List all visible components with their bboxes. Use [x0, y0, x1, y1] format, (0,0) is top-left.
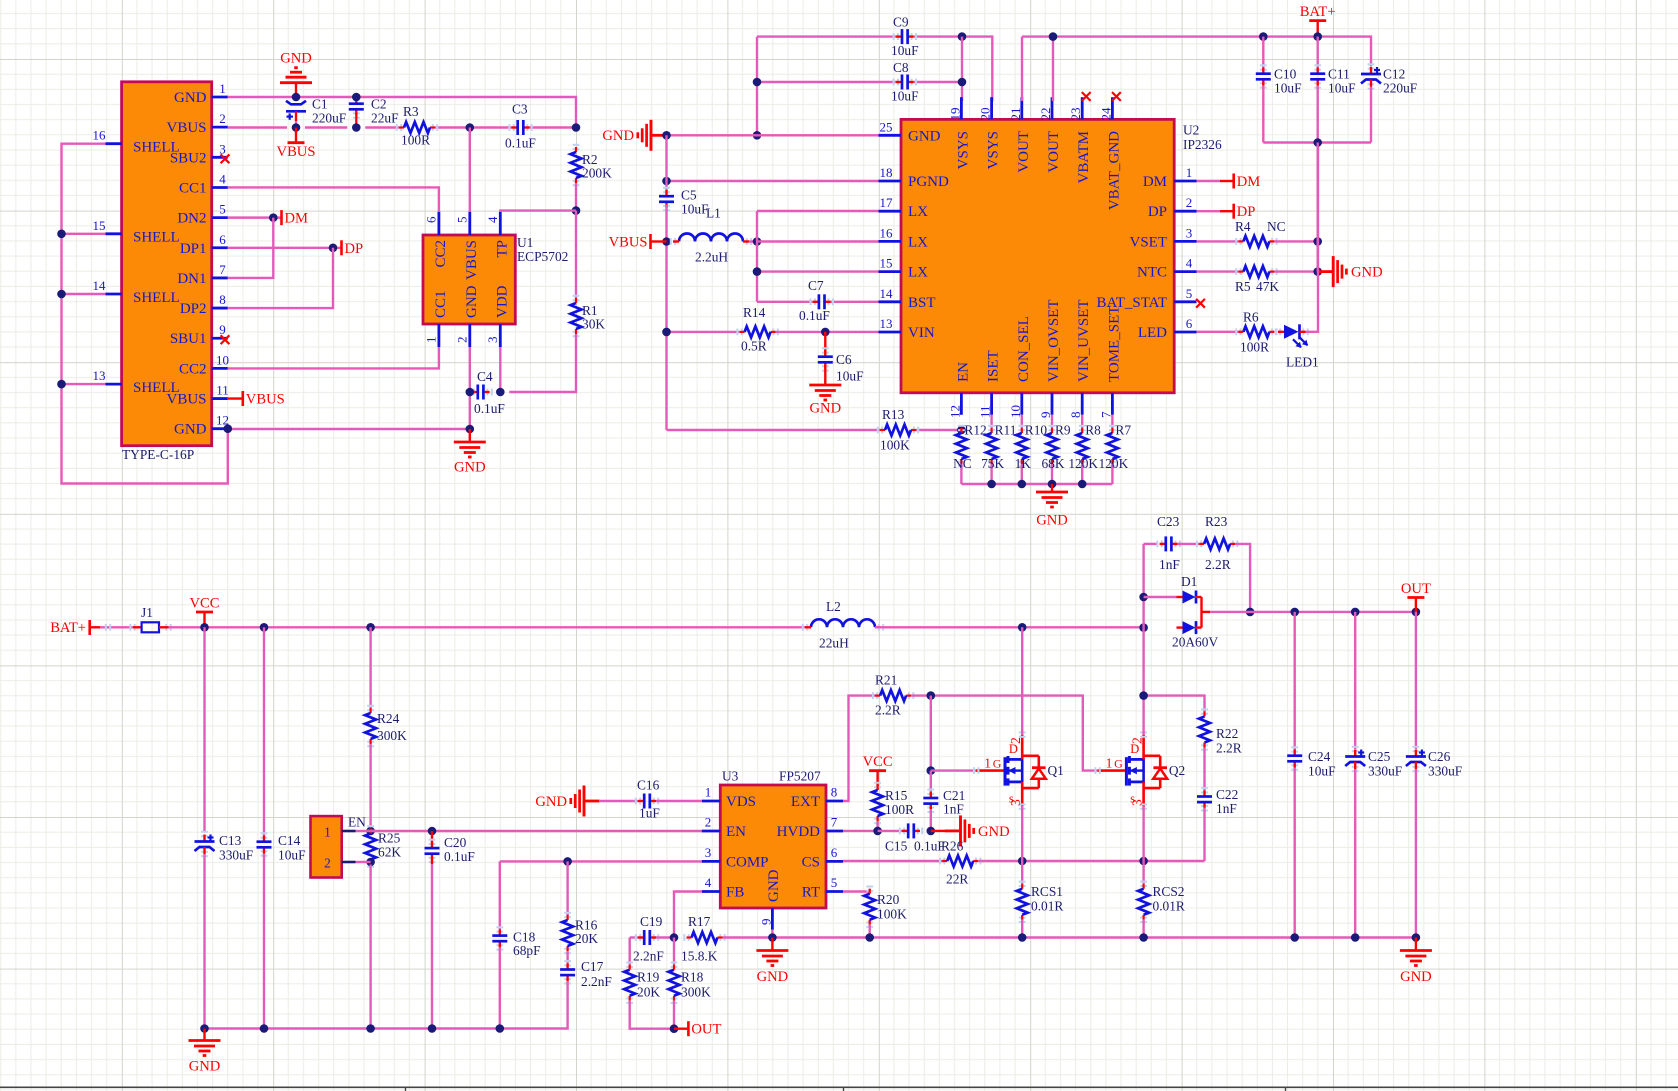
svg-text:5: 5	[454, 217, 469, 224]
svg-text:G: G	[993, 756, 1002, 770]
transistor Q2 MOSFET	[1098, 769, 1127, 772]
IC U3 FP5207 body	[720, 785, 826, 908]
svg-text:GND: GND	[174, 90, 207, 106]
svg-text:L2: L2	[826, 599, 841, 614]
no-connect X on pin 9 SBU1	[221, 335, 230, 344]
svg-text:14: 14	[93, 278, 107, 293]
svg-text:C1: C1	[312, 97, 328, 112]
junction FB node	[670, 933, 679, 942]
svg-text:200K: 200K	[582, 166, 612, 181]
svg-text:10uF: 10uF	[1308, 764, 1336, 779]
capacitor C19 2.2nF	[636, 934, 640, 941]
svg-text:10uF: 10uF	[891, 89, 919, 104]
LED LED1	[1284, 325, 1299, 339]
wire LX pin17	[757, 210, 879, 212]
svg-text:VOUT: VOUT	[1016, 131, 1032, 173]
junction C24 gnd	[1290, 933, 1299, 942]
svg-text:1: 1	[1186, 165, 1193, 180]
wire R4 to battery node	[1274, 240, 1317, 242]
wire C17 to rail	[205, 981, 568, 1028]
junction rail	[987, 480, 996, 489]
connector J-TYPE-C-16P body	[122, 82, 212, 446]
svg-text:U2: U2	[1183, 123, 1199, 138]
junction Q1 source CS	[1018, 857, 1027, 866]
svg-text:22uF: 22uF	[371, 111, 399, 126]
capacitor C18 68pF	[496, 927, 503, 931]
svg-text:2.2nF: 2.2nF	[581, 974, 612, 989]
wire C23 top line	[1144, 543, 1158, 545]
svg-text:EN: EN	[726, 824, 746, 840]
wire Q2 source to CS	[1142, 806, 1144, 861]
svg-text:VIN: VIN	[908, 325, 935, 341]
svg-text:VBUS: VBUS	[246, 392, 285, 408]
wire C21 branch	[930, 771, 932, 793]
svg-text:330uF: 330uF	[1428, 764, 1462, 779]
wire R16-C17	[566, 951, 568, 963]
wire R19 to OUT rail	[630, 1001, 674, 1029]
svg-text:DM: DM	[1237, 174, 1261, 190]
svg-text:2.2uH: 2.2uH	[695, 250, 728, 265]
junction C3 left node	[466, 123, 475, 132]
svg-text:2: 2	[1186, 195, 1193, 210]
wire C8/C9 left vertical	[756, 37, 758, 136]
wire U3 pin9 to GND rail	[771, 930, 773, 938]
junction VIN left	[662, 328, 671, 337]
wire TP node to R1	[575, 211, 577, 298]
svg-text:Q1: Q1	[1048, 763, 1064, 778]
IC U1 ECP5702 body	[423, 235, 515, 324]
junction Q1 drain	[1018, 623, 1027, 632]
svg-text:9: 9	[1038, 412, 1053, 419]
wire DM flag	[1197, 180, 1221, 182]
svg-text:C6: C6	[836, 352, 852, 367]
svg-text:0.1uF: 0.1uF	[444, 849, 475, 864]
svg-text:68K: 68K	[1041, 456, 1064, 471]
junction R4 node	[1313, 237, 1322, 246]
svg-text:GND: GND	[189, 1059, 221, 1075]
junction R21 Q1 branch	[927, 691, 936, 700]
svg-text:24: 24	[1098, 107, 1113, 121]
svg-text:3: 3	[1186, 225, 1193, 240]
svg-text:5: 5	[831, 875, 838, 890]
resistor R14 0.5R	[737, 329, 741, 336]
svg-text:VIN_OVSET: VIN_OVSET	[1046, 300, 1062, 383]
svg-text:6: 6	[423, 216, 438, 223]
resistor R17 15.8K	[684, 934, 688, 941]
wire GND pin12 to U1 ground node	[228, 428, 470, 430]
junction C8 right	[958, 78, 967, 87]
svg-text:11: 11	[216, 383, 229, 398]
wire C16 to U3 pin1	[656, 800, 702, 802]
svg-text:SHELL: SHELL	[133, 290, 180, 306]
junction VCC	[200, 623, 209, 632]
diode D1 upper	[1183, 591, 1196, 604]
svg-text:DM: DM	[1143, 174, 1167, 190]
wire pin22 vertical	[1052, 37, 1054, 101]
svg-text:GND: GND	[1400, 969, 1432, 985]
no-connect X pin 5 BAT_STAT	[1196, 299, 1205, 308]
svg-text:U1: U1	[517, 235, 533, 250]
svg-text:3: 3	[1008, 799, 1023, 806]
net port BAT+ top	[1309, 19, 1326, 22]
capacitor C24 10uF	[1293, 612, 1295, 750]
svg-text:C19: C19	[640, 914, 663, 929]
svg-text:21: 21	[1008, 108, 1023, 121]
svg-text:17: 17	[880, 195, 894, 210]
svg-text:C10: C10	[1274, 67, 1297, 82]
wire Q2 drain	[1142, 628, 1144, 735]
svg-text:TP: TP	[494, 240, 510, 258]
svg-text:GND: GND	[1036, 513, 1068, 529]
wire C13 branch	[203, 627, 205, 832]
svg-text:NC: NC	[1267, 219, 1286, 234]
svg-text:C16: C16	[637, 778, 660, 793]
svg-text:OUT: OUT	[691, 1022, 721, 1038]
wire U1 pin4 TP	[500, 211, 576, 212]
wire C23 to R23	[1178, 543, 1200, 545]
svg-text:6: 6	[831, 845, 838, 860]
svg-text:R15: R15	[885, 788, 908, 803]
net port OUT bottom	[674, 1027, 687, 1029]
svg-text:VBAT_GND: VBAT_GND	[1106, 131, 1122, 210]
svg-text:C25: C25	[1368, 749, 1391, 764]
svg-text:C11: C11	[1328, 67, 1350, 82]
wire EN/R13 line	[667, 429, 881, 431]
connector right pins 1-12	[212, 96, 228, 99]
svg-text:7: 7	[831, 815, 838, 830]
junction GND/vertical	[662, 131, 671, 140]
svg-text:OUT: OUT	[1401, 581, 1431, 597]
wire LED to battery vertical	[1306, 143, 1319, 332]
wire FB pin4	[674, 892, 702, 938]
svg-text:GND: GND	[454, 460, 486, 476]
junction R24 top	[366, 623, 375, 632]
svg-text:GND: GND	[757, 969, 789, 985]
svg-text:11: 11	[978, 405, 993, 418]
svg-text:20K: 20K	[575, 931, 598, 946]
svg-text:13: 13	[880, 316, 893, 331]
U1 top pins 6,5,4	[437, 212, 440, 236]
net port VCC	[196, 611, 213, 614]
svg-text:C9: C9	[893, 15, 909, 30]
wire output rail	[1210, 611, 1416, 613]
svg-text:ECP5702: ECP5702	[517, 249, 568, 264]
junction rail	[1018, 480, 1027, 489]
svg-text:23: 23	[1068, 108, 1083, 121]
wire GND flag to pin25	[667, 134, 879, 136]
svg-text:2: 2	[1129, 737, 1144, 744]
svg-text:18: 18	[880, 165, 893, 180]
junction OUT node	[670, 1024, 679, 1033]
inductor L2 22uH	[811, 619, 875, 627]
svg-text:0.1uF: 0.1uF	[799, 308, 830, 323]
junction pin12	[224, 424, 233, 433]
U2 bottom pins	[960, 393, 963, 415]
svg-text:1nF: 1nF	[943, 802, 964, 817]
junction C4 left	[466, 388, 475, 397]
U3 left pins	[702, 800, 721, 803]
svg-text:IP2326: IP2326	[1183, 137, 1222, 152]
svg-text:0.1uF: 0.1uF	[474, 401, 505, 416]
svg-text:Q2: Q2	[1169, 763, 1185, 778]
junction Q2 drain gate-line	[1139, 691, 1148, 700]
svg-text:SHELL: SHELL	[133, 140, 180, 156]
svg-text:30K: 30K	[582, 317, 605, 332]
wire HVDD pin7	[843, 830, 878, 832]
svg-text:C8: C8	[893, 60, 909, 75]
capacitor C2 22uF	[353, 95, 360, 99]
wire LED pin6	[1197, 331, 1242, 333]
svg-text:2: 2	[1008, 737, 1023, 744]
svg-text:C5: C5	[681, 188, 697, 203]
junction R5 node	[1313, 267, 1322, 276]
svg-text:VIN_UVSET: VIN_UVSET	[1076, 300, 1092, 383]
svg-text:C17: C17	[581, 959, 604, 974]
svg-text:2.2R: 2.2R	[1205, 557, 1231, 572]
wire COMP line	[500, 860, 702, 862]
capacitor C7 0.1uF	[811, 298, 815, 305]
svg-text:62K: 62K	[378, 845, 401, 860]
svg-text:R13: R13	[882, 407, 905, 422]
wire D1 anode top	[1144, 596, 1177, 598]
svg-text:G: G	[1114, 756, 1123, 770]
svg-text:LED: LED	[1138, 325, 1167, 341]
net flag GND right of C15	[931, 830, 945, 832]
wire L1 to LX node	[749, 240, 757, 242]
wire EN line to U3 pin2	[371, 830, 702, 832]
svg-text:LED1: LED1	[1286, 355, 1319, 370]
wire CC1 pin4 to U1 pin6	[228, 187, 439, 212]
net port DP	[340, 240, 343, 255]
svg-text:2.2R: 2.2R	[1216, 741, 1242, 756]
svg-text:RT: RT	[802, 885, 820, 901]
capacitor C17 2.2nF	[564, 961, 571, 965]
junction C10 top	[1259, 32, 1268, 41]
IC U2 IP2326 body	[901, 119, 1174, 392]
sheet border bottom	[0, 1086, 1678, 1088]
junction DM tie	[269, 213, 278, 222]
junction C4 right	[496, 388, 505, 397]
svg-text:CC1: CC1	[179, 180, 207, 196]
svg-text:2: 2	[454, 337, 469, 344]
wire DP flag	[1197, 210, 1221, 212]
junction R20 gnd	[865, 933, 874, 942]
resistor RCS2 0.01R	[1142, 861, 1144, 884]
resistor R9 68K	[1051, 415, 1053, 428]
power GND bottom-left	[203, 1029, 205, 1041]
junction R23 output	[1246, 608, 1255, 617]
wire R14 to VIN pin	[776, 331, 879, 333]
wire header pin1 to EN line	[356, 830, 371, 832]
resistor R24 300K	[367, 706, 374, 710]
svg-text:VDS: VDS	[726, 794, 756, 810]
junction C24 top	[1290, 608, 1299, 617]
junction Q2 drain	[1139, 623, 1148, 632]
svg-text:5: 5	[219, 202, 226, 217]
svg-text:GND: GND	[535, 794, 567, 810]
power GND bottom right	[1415, 938, 1417, 951]
wire DP1 pin6 to DP	[228, 247, 341, 249]
svg-text:13: 13	[93, 368, 106, 383]
wire L2 to Q drains	[875, 626, 1144, 628]
svg-text:14: 14	[880, 286, 894, 301]
svg-text:10uF: 10uF	[891, 43, 919, 58]
svg-text:1: 1	[1106, 756, 1113, 771]
svg-text:C7: C7	[808, 278, 824, 293]
svg-text:100K: 100K	[877, 907, 907, 922]
resistor R11 75K	[990, 415, 992, 428]
U3 bottom pin 9 GND	[771, 908, 774, 930]
wire RT pin5 to R20	[843, 889, 870, 892]
svg-text:VCC: VCC	[189, 596, 219, 612]
svg-text:4: 4	[485, 216, 500, 223]
wire R2 to TP node	[575, 183, 577, 211]
resistor RCS1 0.01R	[1021, 861, 1023, 884]
svg-text:22uH: 22uH	[819, 636, 849, 651]
D1 cathode bracket	[1195, 596, 1202, 598]
svg-text:R24: R24	[377, 711, 400, 726]
wire main VCC rail	[169, 626, 807, 628]
svg-text:DN1: DN1	[177, 271, 206, 287]
junction C1 bottom	[292, 123, 301, 132]
svg-text:CON_SEL: CON_SEL	[1016, 316, 1032, 382]
wire C14 branch	[263, 627, 265, 835]
wire VSET to R4	[1197, 240, 1239, 242]
svg-text:9: 9	[219, 322, 226, 337]
resistor R6 100R	[1236, 328, 1240, 335]
svg-text:47K: 47K	[1256, 279, 1279, 294]
wire DP2 pin8 tie	[228, 248, 333, 308]
wire C22 to CS line	[1203, 808, 1205, 862]
svg-text:2: 2	[705, 815, 712, 830]
svg-text:R25: R25	[378, 831, 401, 846]
junction R15 bottom	[873, 827, 882, 836]
svg-text:GND: GND	[602, 128, 634, 144]
svg-text:6: 6	[1186, 316, 1193, 331]
wire R5 to battery node	[1274, 270, 1317, 272]
svg-text:VBUS: VBUS	[166, 120, 206, 136]
wire R15 to HVDD	[876, 821, 878, 831]
wire Q2 drain to D1 top anode	[1142, 544, 1144, 628]
svg-text:VSYS: VSYS	[955, 131, 971, 169]
svg-text:D1: D1	[1181, 574, 1197, 589]
svg-text:100R: 100R	[401, 133, 430, 148]
diode D1 lower	[1183, 621, 1196, 634]
wire LX pin15	[757, 270, 879, 272]
junction EN node	[366, 827, 375, 836]
wire U1 pin3 VDD down	[499, 347, 501, 392]
wire R22 to C22	[1203, 748, 1205, 791]
capacitor C8 10uF	[894, 79, 898, 86]
junction shell 14	[57, 290, 66, 299]
svg-text:R5: R5	[1235, 279, 1251, 294]
resistor R2 200K	[573, 145, 580, 149]
svg-text:1: 1	[219, 81, 226, 96]
wire C19 left corner	[630, 936, 638, 938]
junction RCS2 gnd	[1139, 933, 1148, 942]
capacitor C5 10uF	[663, 188, 670, 192]
capacitor C6 10uF	[824, 332, 826, 354]
wire shell 15	[62, 233, 106, 235]
wire BST line	[757, 301, 813, 303]
svg-text:5: 5	[1186, 286, 1193, 301]
capacitor C20 0.1uF	[431, 831, 433, 843]
wire DN2 pin5 to DM	[228, 216, 281, 218]
svg-text:330uF: 330uF	[1368, 764, 1402, 779]
svg-text:20K: 20K	[637, 985, 660, 1000]
wire VBUS C1-C2	[305, 126, 347, 128]
svg-text:RCS2: RCS2	[1153, 884, 1185, 899]
junction PGND	[662, 177, 671, 186]
resistor R10 1K	[1021, 415, 1023, 428]
junction U1 gnd node	[466, 425, 475, 434]
svg-text:J1: J1	[141, 605, 153, 620]
wire R24 to EN node	[369, 744, 371, 831]
wire battery caps bottom	[1263, 141, 1371, 143]
capacitor C1 220uF polarized	[295, 98, 297, 101]
svg-text:2.2nF: 2.2nF	[633, 949, 664, 964]
svg-text:VSYS: VSYS	[986, 131, 1002, 169]
svg-text:22: 22	[1038, 108, 1053, 121]
wire R24 branch	[369, 627, 371, 708]
svg-text:VSET: VSET	[1130, 234, 1168, 250]
svg-text:C24: C24	[1308, 749, 1331, 764]
capacitor C12 220uF polarized	[1368, 64, 1375, 68]
svg-text:3: 3	[219, 141, 226, 156]
svg-text:R6: R6	[1243, 310, 1259, 325]
capacitor C15 0.1uF	[900, 828, 904, 835]
U1 bottom pins 1,2,3	[437, 324, 440, 347]
svg-text:RCS1: RCS1	[1031, 884, 1063, 899]
svg-text:DP: DP	[345, 241, 364, 257]
svg-text:1nF: 1nF	[1216, 801, 1237, 816]
junction D1 top anode	[1139, 593, 1148, 602]
wire Q2 snubber top	[1144, 696, 1205, 712]
junction EN R13 R12	[957, 426, 966, 435]
wire Q1 drain	[1021, 627, 1023, 735]
junction rail C18	[496, 1024, 505, 1033]
svg-text:C23: C23	[1157, 514, 1180, 529]
resistor R23 2.2R	[1197, 541, 1201, 548]
junction rail C13	[200, 1024, 209, 1033]
inductor L1 2.2uH	[679, 234, 743, 242]
svg-text:8: 8	[1068, 412, 1083, 419]
wire C8 line	[757, 81, 896, 83]
svg-text:R17: R17	[688, 914, 711, 929]
wire GND pin1 to C3 right node	[228, 97, 576, 128]
svg-text:FB: FB	[726, 885, 744, 901]
svg-text:GND: GND	[174, 422, 207, 438]
svg-text:1: 1	[324, 825, 331, 840]
svg-text:R3: R3	[403, 104, 419, 119]
svg-text:68pF: 68pF	[513, 943, 541, 958]
junction shell 13	[57, 380, 66, 389]
svg-text:VBUS: VBUS	[609, 235, 648, 251]
svg-text:10uF: 10uF	[1328, 81, 1356, 96]
svg-text:FP5207: FP5207	[779, 769, 821, 784]
wire VBUS C2-R3	[365, 126, 399, 128]
wire R20 to GND rail	[869, 925, 871, 938]
wire CC2 pin10 to U1 pin1	[228, 347, 439, 368]
no-connect X pin 23	[1082, 92, 1091, 101]
junction rail	[1048, 480, 1057, 489]
resistor R25 62K	[367, 826, 374, 830]
svg-text:C14: C14	[278, 833, 301, 848]
svg-text:10uF: 10uF	[681, 202, 709, 217]
wire R23 to output rail	[1235, 544, 1250, 612]
junction R16 top	[563, 857, 572, 866]
svg-text:R14: R14	[743, 305, 766, 320]
